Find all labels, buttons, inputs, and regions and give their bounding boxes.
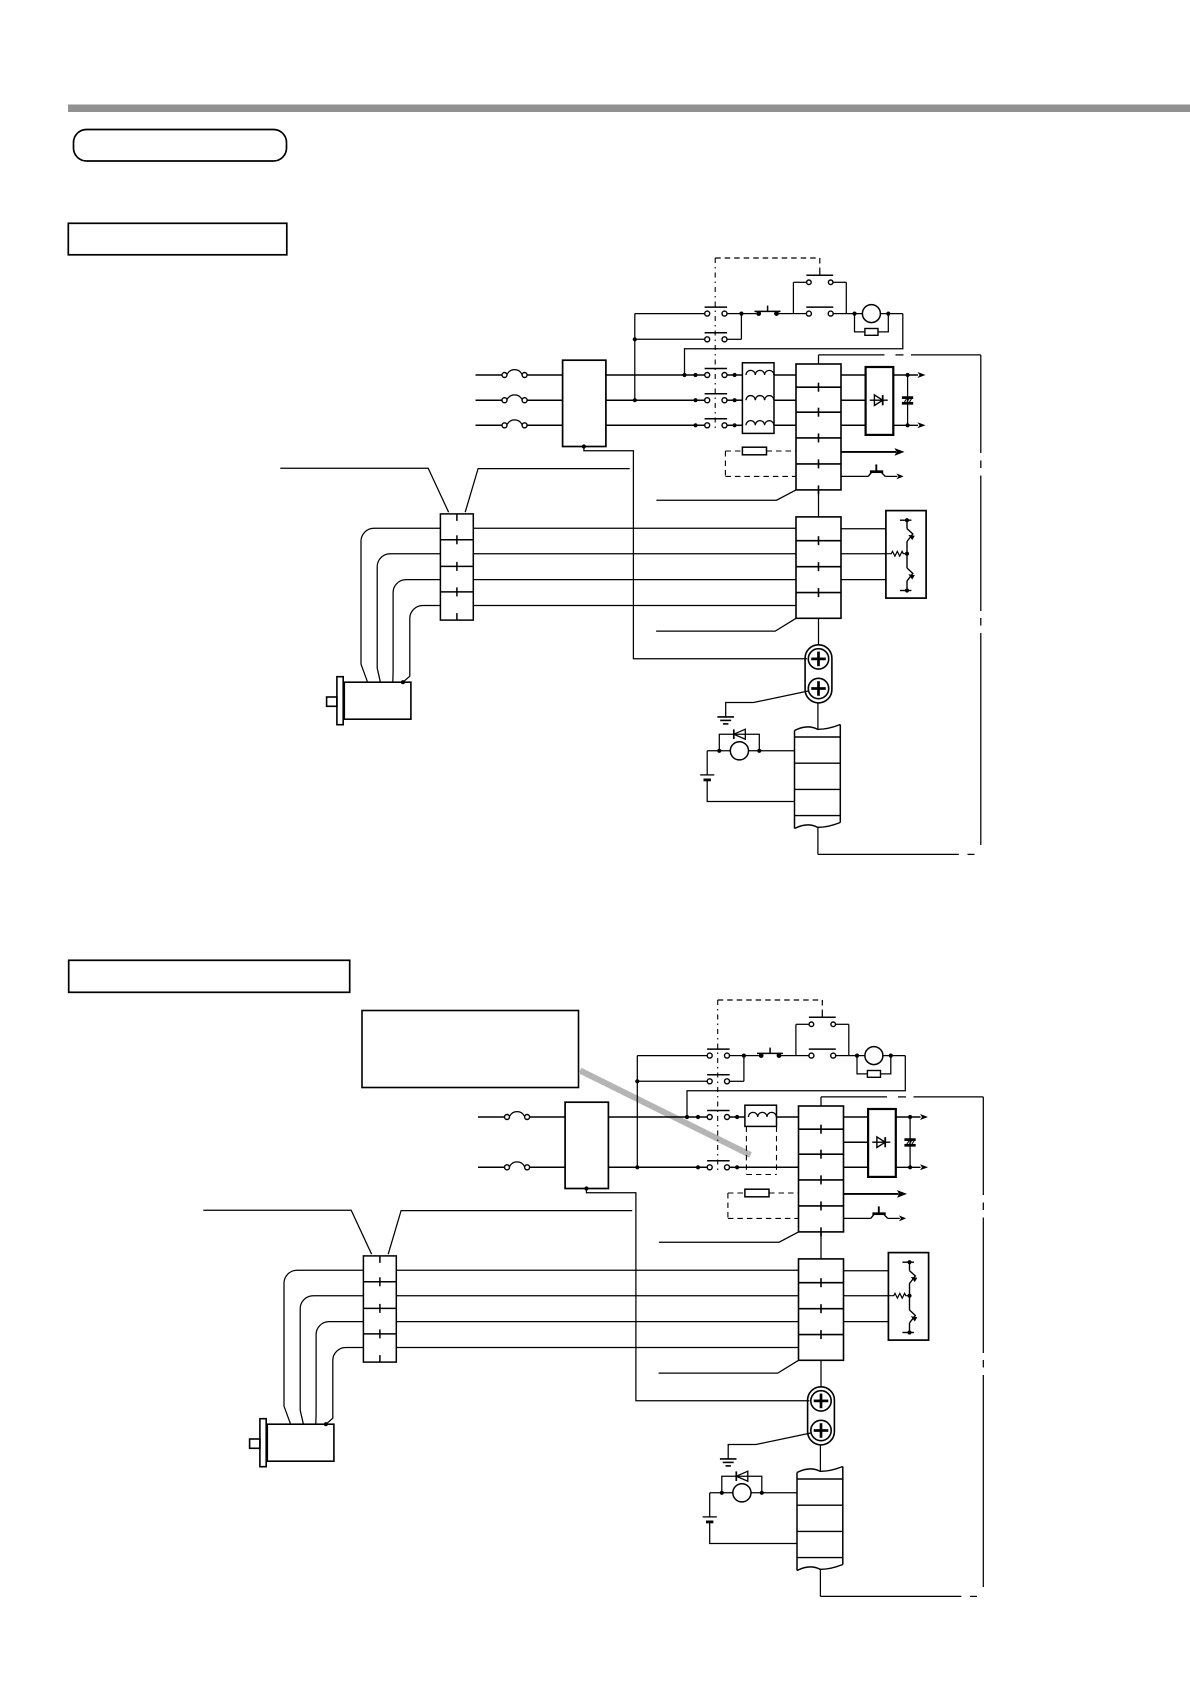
3ph: mains input wire 3 [476, 424, 563, 426]
1ph: regenerative resistor (optional) [728, 1189, 799, 1218]
3ph: motor connector block [440, 514, 473, 620]
3ph: contactor mechanical link (dash-dot) [714, 258, 716, 432]
3ph: battery supply wire [707, 749, 794, 753]
1ph: ON pushbutton (NO) [796, 1011, 849, 1056]
3ph: bypass diode [719, 729, 759, 751]
3ph: wire reactor to terminal 2 [774, 399, 796, 401]
3ph: contactor main contact 2 [705, 394, 728, 403]
1ph: noise filter earth wire [584, 1186, 809, 1400]
1ph: bypass diode [722, 1471, 762, 1493]
3ph: ground symbol [717, 717, 734, 724]
1ph: motor lead 1 [396, 1269, 798, 1271]
1ph: rectifier diode symbol [872, 1137, 890, 1148]
3ph: earth screw terminals [805, 645, 832, 703]
3ph: internal capacitor symbol [902, 398, 913, 404]
3ph: contactor auxiliary contact 2 [705, 333, 728, 342]
3ph: contactor coil MC [862, 305, 880, 323]
1ph: regen transistor symbol and arrow [844, 1206, 907, 1221]
1ph: rectifier box [868, 1109, 896, 1177]
1ph: motor frame earth dot [324, 1422, 328, 1426]
3ph: surge absorber [855, 312, 891, 336]
3ph: mains input wire 1 [476, 374, 563, 376]
1ph: reactor L (single coil) [745, 1105, 777, 1126]
1ph: wire filter to contactor 1 [608, 1115, 707, 1119]
1ph: ground symbol [720, 1459, 737, 1466]
1ph: mains input wire 2 [478, 1166, 565, 1168]
1ph: motor lead 2 [396, 1295, 798, 1297]
1ph: OFF pushbutton (NC) [757, 1048, 796, 1058]
3ph: aux contact join wire [727, 312, 757, 340]
3ph: wire contactor to reactor 2 [727, 398, 742, 402]
1ph: cable funnel right line [388, 1211, 632, 1255]
1ph: protective earth wire [728, 1433, 811, 1459]
3ph: wire contactor to reactor 3 [727, 423, 742, 427]
section heading box (single-phase) [69, 960, 350, 992]
1ph: battery indicator circle [733, 1484, 751, 1502]
3ph: battery cell [700, 751, 794, 802]
1ph: circuit breaker pole 1 [505, 1112, 530, 1120]
1ph: battery cell [703, 1493, 797, 1544]
1ph: wire filter to contactor 2 [608, 1165, 707, 1169]
1ph: motor cable 3 [316, 1322, 364, 1425]
1ph: wire contactor to reactor 1 [730, 1115, 745, 1119]
3ph: circuit breaker pole 2 [502, 395, 527, 403]
3ph: motor lead 4 [473, 605, 796, 607]
1ph: surge absorber [857, 1054, 893, 1078]
1ph: battery supply wire [710, 1491, 797, 1495]
1ph: output stage wires [844, 1271, 889, 1322]
3ph: contactor main contact 3 [705, 419, 728, 428]
3ph: servo motor [327, 677, 411, 725]
3ph: ON pushbutton (NO) [793, 269, 846, 314]
3ph: motor cable 1 [361, 528, 440, 682]
1ph: regen control arrow [844, 1190, 908, 1198]
1ph: cable funnel left line [203, 1210, 371, 1254]
3ph: pushbutton-unit dashed outline [715, 258, 820, 269]
3ph: rectifier diode symbol [870, 395, 888, 406]
1ph: earth screw terminals [808, 1387, 835, 1445]
3ph: motor lead 2 [473, 553, 796, 555]
3ph: motor lead 1 [473, 527, 796, 529]
1ph: cable bundle line lower [659, 1360, 799, 1373]
1ph: motor lead 4 [396, 1347, 798, 1349]
1ph: DC bus negative arrow [896, 1164, 928, 1170]
3ph: noise filter NF [563, 360, 606, 446]
1ph: motor connector block [363, 1256, 396, 1362]
1ph: contactor holding contact [796, 1024, 865, 1058]
3ph: motor frame earth dot [401, 680, 405, 684]
3ph: DC bus link wire [907, 375, 909, 425]
3ph: protective earth wire [726, 691, 809, 717]
header rule bar [68, 105, 1190, 113]
1ph: DC bus link wire [909, 1117, 911, 1167]
3ph: control feed wire from phase [633, 314, 705, 403]
3ph: motor cable 4 [403, 606, 441, 683]
1ph: contactor main contact 2 [707, 1161, 730, 1170]
3ph: motor cable 3 [393, 580, 441, 683]
1ph: internal capacitor symbol [904, 1140, 915, 1146]
3ph: output stage wires [841, 529, 886, 580]
3ph: encoder connector block [795, 725, 841, 829]
1ph: wire earth screws to encoder [819, 1445, 821, 1471]
1ph: contactor auxiliary contact 2 [707, 1075, 730, 1084]
1ph: block link wire [820, 1232, 822, 1259]
callout label box [362, 1011, 579, 1088]
1ph: contactor main contact 1 [707, 1111, 730, 1120]
3ph: cable bundle line lower [656, 618, 796, 631]
3ph: power terminal block L1-L3/B1-B2 [796, 364, 841, 494]
1ph: mains input wire 1 [478, 1116, 565, 1118]
1ph: control feed wire from phase [635, 1056, 707, 1170]
1ph: motor terminal block U/V/W/E [799, 1259, 844, 1360]
1ph: contactor auxiliary contact 1 [707, 1049, 730, 1058]
3ph: wire filter to contactor 2 [606, 398, 705, 402]
3ph: DC bus positive arrow [893, 372, 925, 378]
1ph: encoder connector block [797, 1467, 843, 1571]
3ph: regen transistor symbol and arrow [841, 464, 904, 479]
callout leader (thick gray) [580, 1071, 751, 1156]
3ph: output stage box [886, 511, 926, 598]
1ph: wire reactor to terminal L1 [777, 1116, 799, 1118]
3ph: enclosure border (dash-dot) [818, 355, 981, 855]
1ph: noise filter NF [565, 1102, 608, 1188]
3ph: reactor L (3-phase) [742, 363, 774, 434]
3ph: motor cable 2 [377, 554, 440, 683]
1ph: contactor mechanical link (dash-dot) [717, 1000, 719, 1174]
1ph: contactor coil MC [865, 1047, 883, 1065]
3ph: cable funnel left line [280, 468, 448, 512]
3ph: block link wire [818, 490, 820, 517]
3ph: regen control arrow [841, 448, 905, 456]
1ph: power terminal block L1-L3/B1-B2 [799, 1106, 844, 1236]
3ph: rectifier box [866, 367, 894, 435]
1ph: output stage box [888, 1253, 928, 1341]
section heading box (three-phase) [68, 223, 286, 255]
1ph: enclosure border (dash-dot) [820, 1097, 983, 1597]
1ph: circuit breaker pole 2 [505, 1162, 530, 1170]
3ph: wire contactor to reactor 1 [727, 373, 742, 377]
1ph: servo motor [250, 1419, 334, 1467]
1ph: motor cable 1 [284, 1270, 363, 1424]
3ph: motor lead 3 [473, 579, 796, 581]
1ph: motor cable 4 [326, 1348, 364, 1425]
3ph: wire filter to contactor 3 [606, 423, 705, 427]
page title rounded box [74, 130, 287, 162]
3ph: contactor holding contact [793, 282, 862, 316]
3ph: cable bundle line upper [656, 490, 796, 500]
1ph: wire block2 to earth screws [820, 1360, 822, 1387]
3ph: motor terminal block U/V/W/E [796, 517, 841, 618]
3ph: circuit breaker pole 1 [502, 370, 527, 378]
1ph: cable bundle line upper [659, 1232, 799, 1242]
1ph: wire contactor to reactor 2 [730, 1165, 745, 1169]
3ph: rectifier input wires [841, 375, 866, 425]
1ph: rectifier input wires [844, 1117, 869, 1167]
3ph: battery indicator circle [730, 742, 748, 760]
1ph: aux contact join wire [729, 1054, 759, 1082]
3ph: regenerative resistor (optional) [725, 447, 796, 476]
3ph: OFF pushbutton (NC) [755, 306, 794, 316]
1ph: reactor optional dashed box [746, 1126, 776, 1174]
3ph: circuit breaker pole 3 [502, 420, 527, 428]
1ph: pushbutton-unit dashed outline [718, 1000, 823, 1011]
3ph: wire reactor to terminal 3 [774, 424, 796, 426]
1ph: motor lead 3 [396, 1321, 798, 1323]
1ph: DC bus positive arrow [896, 1114, 928, 1120]
3ph: wire filter to contactor 1 [606, 373, 705, 377]
3ph: DC bus negative arrow [893, 422, 925, 428]
3ph: wire block2 to earth screws [818, 618, 820, 645]
3ph: noise filter earth wire [582, 444, 807, 658]
1ph: motor cable 2 [300, 1296, 363, 1425]
3ph: mains input wire 2 [476, 399, 563, 401]
3ph: contactor main contact 1 [705, 369, 728, 378]
3ph: wire earth screws to encoder [817, 703, 819, 729]
1ph: wire to terminal L2 (through dashed box) [745, 1166, 799, 1168]
3ph: contactor auxiliary contact 1 [705, 307, 728, 316]
3ph: cable funnel right line [465, 469, 630, 513]
1ph: coil return wire [685, 1056, 905, 1120]
3ph: coil return wire [682, 314, 902, 378]
3ph: wire reactor to terminal 1 [774, 374, 796, 376]
